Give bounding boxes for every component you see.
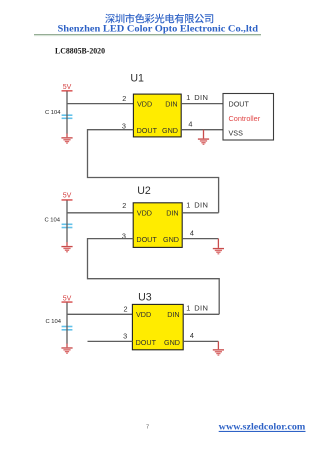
svg-text:DIN: DIN (166, 209, 178, 218)
IC U3 (132, 304, 183, 349)
wire VDD U1 (67, 103, 133, 105)
pin 1 DIN label U3 (186, 304, 208, 313)
wire DIN pin1 U1 (181, 103, 223, 105)
wire GND pin4 U3 (183, 340, 218, 342)
wire DIN pin1 U3 (183, 313, 219, 315)
svg-text:2: 2 (124, 304, 128, 313)
svg-text:1: 1 (186, 93, 190, 102)
svg-text:C 104: C 104 (45, 110, 61, 116)
pin 2 label U2 (122, 201, 126, 210)
capacitor C 104 U2 (45, 218, 73, 229)
svg-text:DIN: DIN (194, 200, 208, 209)
wire 5V rail to ground U1 (66, 91, 68, 137)
svg-text:5V: 5V (63, 84, 72, 91)
part number LC8805B-2020 (55, 47, 105, 56)
IC U2 (133, 203, 182, 248)
ground U1 supply (61, 137, 72, 144)
svg-text:3: 3 (122, 121, 126, 130)
svg-text:5V: 5V (63, 295, 72, 302)
wire U1.DOUT to U2.DIN (88, 130, 219, 213)
pin 1 DIN label U1 (186, 93, 208, 102)
footer website link (219, 422, 306, 432)
svg-text:GND: GND (164, 338, 180, 347)
svg-text:DIN: DIN (165, 99, 177, 108)
IC label U1 (130, 73, 144, 85)
svg-text:VDD: VDD (137, 99, 152, 108)
svg-text:DOUT: DOUT (137, 126, 158, 135)
svg-text:4: 4 (190, 331, 194, 340)
svg-text:7: 7 (146, 425, 149, 431)
company name Chinese title (105, 14, 213, 24)
wire 5V rail to ground U3 (66, 303, 68, 348)
svg-text:VDD: VDD (137, 209, 152, 218)
pin 1 DIN label U2 (186, 200, 208, 209)
IC label U3 (138, 292, 152, 304)
svg-text:LC8805B-2020: LC8805B-2020 (55, 47, 105, 56)
power 5V U2 (62, 193, 73, 201)
pin 3 label U1 (122, 121, 126, 130)
svg-text:DIN: DIN (194, 93, 208, 102)
pin 4 label U1 (188, 119, 192, 128)
svg-text:GND: GND (162, 126, 178, 135)
ground U1 pin4 (203, 130, 205, 139)
company name English title (58, 23, 259, 33)
pin 2 label U1 (122, 94, 126, 103)
svg-text:5V: 5V (63, 193, 72, 200)
svg-text:C 104: C 104 (46, 319, 62, 325)
svg-text:U1: U1 (130, 73, 144, 85)
svg-text:U2: U2 (137, 185, 151, 197)
IC U1 (133, 94, 181, 137)
capacitor C 104 U3 (46, 319, 73, 331)
svg-text:DOUT: DOUT (136, 338, 157, 347)
pin 2 label U3 (124, 304, 128, 313)
ground U2 supply (61, 246, 72, 253)
pin 4 label U2 (190, 228, 194, 237)
wire U3.DOUT stub (88, 340, 133, 342)
wire VDD U3 (67, 313, 132, 315)
svg-text:4: 4 (188, 119, 192, 128)
svg-text:DOUT: DOUT (136, 235, 157, 244)
power 5V U3 (62, 295, 73, 302)
page number (146, 425, 149, 431)
svg-text:GND: GND (163, 235, 179, 244)
wire GND pin4 U2 (182, 238, 218, 240)
wire DIN pin1 U2 (182, 212, 218, 214)
svg-text:3: 3 (123, 331, 127, 340)
wire 5V rail to ground U2 (66, 201, 68, 246)
svg-text:1: 1 (186, 304, 190, 313)
capacitor C 104 U1 (45, 110, 72, 119)
wire VDD U2 (67, 212, 133, 214)
controller (223, 94, 274, 141)
svg-text:2: 2 (122, 201, 126, 210)
svg-text:Shenzhen LED Color Opto Electr: Shenzhen LED Color Opto Electronic Co.,l… (58, 23, 259, 33)
power 5V U1 (62, 84, 73, 91)
svg-text:VDD: VDD (136, 310, 151, 319)
header rule (34, 34, 261, 36)
ground U3 supply (61, 347, 72, 354)
svg-text:4: 4 (190, 228, 194, 237)
svg-text:1: 1 (186, 200, 190, 209)
wire U2.DOUT to U3.DIN (88, 239, 220, 315)
pin 3 label U2 (122, 231, 126, 240)
svg-text:DOUT: DOUT (229, 99, 250, 108)
svg-text:VSS: VSS (229, 128, 244, 137)
pin 4 label U3 (190, 331, 194, 340)
ground U2 pin4 (217, 239, 219, 248)
wire GND pin4 U1 (181, 129, 223, 131)
svg-text:2: 2 (122, 94, 126, 103)
svg-text:C 104: C 104 (45, 218, 61, 224)
svg-text:DIN: DIN (167, 310, 179, 319)
ground U3 pin4 (217, 341, 219, 349)
svg-text:U3: U3 (138, 292, 152, 304)
IC label U2 (137, 185, 151, 197)
svg-text:DIN: DIN (194, 304, 208, 313)
svg-text:Controller: Controller (229, 114, 261, 123)
pin 3 label U3 (123, 331, 127, 340)
